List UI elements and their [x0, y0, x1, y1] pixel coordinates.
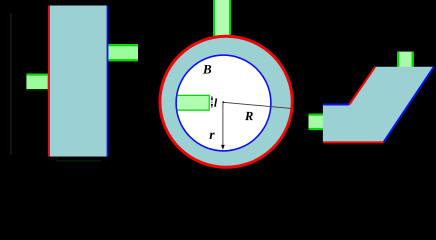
right slab top tab	[397, 52, 414, 68]
label R	[245, 112, 253, 120]
right slab body (sheared hexagon)	[323, 67, 434, 143]
inner circle (blue)	[176, 55, 271, 151]
center node	[222, 101, 224, 103]
wire (dark horizontal lead, below left rectangle)	[56, 160, 102, 162]
label r	[210, 133, 215, 139]
top green tab of ring (cross-section view)	[213, 0, 231, 38]
left solenoid tab (left side)	[26, 74, 47, 91]
slab edge: top-left horizontal (blue)	[323, 104, 349, 106]
right solenoid tab (right side of rectangle)	[108, 44, 138, 61]
right slab left tab	[309, 114, 324, 131]
inner bore (white fill)	[176, 55, 271, 151]
label B	[203, 65, 211, 74]
wire (dark vertical lead, left)	[10, 13, 12, 155]
outer ring (red circle, teal annulus fill)	[160, 36, 292, 167]
green bar inside bore	[176, 95, 209, 111]
solenoid body (left teal rectangle)	[48, 6, 108, 157]
slab edge: bottom horizontal (red)	[323, 141, 384, 143]
radius line R (center to outer ring)	[223, 102, 291, 108]
radius line r (center down to blue circle) with arrowhead	[221, 102, 225, 149]
slab edge: right diagonal (blue)	[383, 67, 434, 143]
slab edge: left diagonal (red)	[349, 67, 375, 105]
label l	[214, 98, 217, 106]
dimension arrow l (double-headed)	[211, 96, 213, 108]
